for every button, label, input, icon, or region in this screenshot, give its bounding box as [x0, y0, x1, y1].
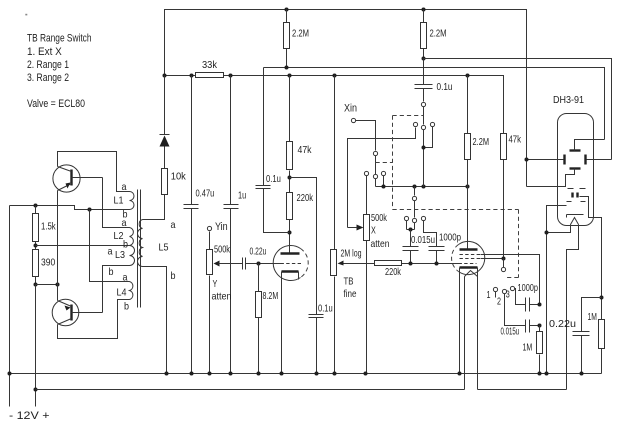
svg-text:1: 1 [487, 290, 491, 301]
svg-text:1u: 1u [238, 191, 246, 202]
capacitor 0.22u (output) [549, 298, 602, 374]
wire contact 2 to 0.015u [505, 294, 526, 326]
wire Q2 collector loop to L4-b [58, 300, 130, 339]
node junction S3 pole [413, 185, 417, 189]
switch S1 pole contacts [421, 102, 425, 186]
inductor L2 winding [114, 218, 134, 251]
node rail75/0.47u [190, 74, 194, 78]
wire Q2 emitter up to junction [57, 285, 59, 301]
svg-text:500k: 500k [214, 245, 231, 256]
capacitor 1000p (right) [518, 283, 540, 312]
wire lead into V3 lower grid [547, 206, 567, 374]
node rail1 junctions [8, 372, 584, 376]
wire L5-b down to rail1 [143, 267, 167, 374]
svg-text:500k: 500k [371, 213, 388, 224]
wire 390 bottom to emitter line [36, 284, 58, 286]
svg-text:Y: Y [213, 279, 218, 290]
node junction top rail / R 2.2M left [285, 8, 289, 12]
wire 10k to L5 top lead [143, 195, 165, 220]
node junction 47k / g3 / S4 pole [502, 257, 506, 261]
node junction top rail / R 2.2M right [422, 8, 426, 12]
svg-text:Valve = ECL80: Valve = ECL80 [27, 98, 85, 110]
svg-text:b: b [109, 267, 114, 278]
svg-text:TB: TB [344, 277, 354, 288]
switch S3 pole contacts [412, 187, 416, 230]
node junction S1 pole line [422, 185, 426, 189]
svg-text:1000p: 1000p [439, 233, 461, 244]
capacitor 0.1u (coupling from y=67 wire) [256, 68, 290, 233]
wire V3 inner step to output lead [580, 197, 602, 374]
svg-text:fine: fine [344, 289, 357, 300]
resistor 220k [287, 193, 314, 254]
inductor L4 winding [117, 273, 133, 313]
svg-text:Xin: Xin [344, 103, 357, 115]
node junction grid / 8.2M [257, 262, 261, 266]
valve V3 grid side contact left [527, 155, 565, 165]
wire Xin to switch S2 [356, 121, 376, 151]
svg-text:2.2M: 2.2M [473, 137, 490, 148]
transistor Q1 [53, 165, 103, 192]
switch S4 contact 1 [487, 287, 498, 301]
wire V2 filament left to rail2 [464, 277, 466, 390]
dashed gang linkage box [376, 116, 519, 278]
svg-text:b: b [124, 302, 129, 313]
svg-text:0.015u: 0.015u [411, 235, 435, 246]
wire switch rail y=186.5 [376, 186, 468, 188]
svg-text:2.2M: 2.2M [292, 29, 309, 40]
wire V2 anode feed [467, 187, 469, 250]
node junction 47k/220k [288, 176, 292, 180]
svg-text:10k: 10k [171, 172, 187, 183]
node junction 1.5k top [34, 204, 38, 208]
node junction rail2 start [34, 388, 38, 392]
resistor 47k (anode load V1a) [287, 76, 313, 193]
valve V3 grid 2 bar with lead [527, 169, 581, 187]
svg-text:2: 2 [497, 297, 501, 308]
svg-text:b: b [123, 240, 128, 251]
svg-text:390: 390 [41, 258, 55, 269]
svg-text:2.2M: 2.2M [430, 29, 447, 40]
wire X atten wiper up to S1 contact [348, 128, 416, 228]
node junction 1.5k/390 centre tap [34, 244, 38, 248]
valve V2 pentode (ECL80 half) [452, 241, 485, 276]
svg-text:b: b [171, 271, 176, 282]
svg-text:0.1u: 0.1u [266, 174, 281, 185]
svg-text:2M log: 2M log [341, 249, 362, 260]
resistor 33k [196, 60, 224, 78]
wire rail 2 right segment [478, 389, 567, 391]
switch S1 contact left [413, 122, 417, 126]
node terminal Xin [344, 103, 357, 123]
capacitor 0.1u (X coupling) [415, 59, 453, 102]
svg-text:a: a [123, 273, 128, 284]
wire L1-b junction down to L4-a [90, 210, 130, 282]
resistor 10k [162, 169, 187, 195]
capacitor 0.22u (Y input) [243, 247, 281, 270]
inductor L5 winding (secondary) [138, 220, 176, 283]
node rail75/1u [229, 74, 233, 78]
svg-text:1M: 1M [523, 343, 533, 354]
potentiometer 2M log TB fine [331, 76, 375, 374]
valve V3 filament [571, 218, 579, 225]
wire Q1 collector to L1-a [58, 152, 130, 192]
potentiometer 500k X atten [348, 176, 390, 374]
diode D1 [160, 135, 170, 169]
resistor 47k (right) [501, 134, 522, 259]
svg-text:DH3-91: DH3-91 [553, 95, 584, 106]
transistor Q2 [52, 299, 102, 326]
node junction anode/0.1u coupling [288, 231, 292, 235]
wire centre tap to L2b/L3a [36, 245, 130, 247]
switch S3 contact left [404, 216, 414, 229]
node junction S3 contacts tie [409, 228, 413, 232]
node junction 390 bottom [34, 283, 38, 287]
wire filament left leg to rail1 line [547, 225, 571, 233]
svg-text:2. Range 1: 2. Range 1 [27, 59, 69, 71]
capacitor 0.015u (right) [501, 320, 540, 338]
svg-text:L3: L3 [115, 250, 125, 261]
resistor 2.2M (right) [421, 10, 447, 59]
svg-text:atten: atten [371, 239, 390, 250]
valve V1a triode (ECL80 half) [273, 246, 308, 374]
resistor 2.2M (left) [284, 10, 310, 68]
svg-text:8.2M: 8.2M [263, 291, 279, 302]
svg-text:1. Ext X: 1. Ext X [27, 46, 62, 58]
wire far-left vertical to -12V minus [9, 206, 11, 407]
resistor 8.2M [256, 264, 279, 374]
resistor 2.2M (mid, V2 grid leak) [465, 76, 490, 187]
switch S1 contact right [424, 122, 435, 147]
wire contact 3 to 1000p [515, 289, 526, 305]
node junction emitters [56, 283, 60, 287]
node junction filament/cathode line [545, 231, 549, 235]
wire 390 junction down to -12V plus [35, 285, 37, 407]
svg-text:47k: 47k [509, 135, 522, 146]
switch S3 contact right [421, 216, 436, 246]
valve V3 DH3-91 envelope [553, 95, 594, 226]
node junction 1000p / grid wire [435, 262, 439, 266]
svg-text:a: a [122, 218, 127, 229]
svg-text:47k: 47k [298, 145, 313, 156]
node rail75/2.2M mid [466, 74, 470, 78]
svg-text:- 12V +: - 12V + [9, 410, 50, 422]
node junction 0.015u / 1M chain [538, 324, 542, 328]
wire V2 filament right to rail2 [477, 268, 479, 390]
wire left feed y=205.3 with step to L1-b [10, 206, 130, 210]
node junction rail/V2 anode [466, 185, 470, 189]
wire V2 screen lead to 1M chain [481, 255, 540, 305]
node junction 2.2M left bottom on y=67.2 wire [285, 66, 289, 70]
svg-text:0.1u: 0.1u [318, 304, 333, 315]
node junction S1 right contact [422, 146, 426, 150]
svg-text:33k: 33k [202, 60, 218, 71]
note text block: TB Range Switch legend [27, 33, 92, 111]
capacitor 1000p (TB) [429, 233, 462, 264]
svg-text:220k: 220k [385, 267, 402, 278]
wire filament right leg to rail2 [567, 225, 579, 390]
wire y=58.7 to DH3-91 right plate [424, 59, 612, 160]
wire rail 2 left segment (-12V return) [36, 389, 465, 391]
node rail75/TB fine pot [333, 74, 337, 78]
valve V3 grid side contact right [586, 155, 612, 165]
wire junction to 0.1u branch [290, 178, 317, 315]
svg-text:0.22u: 0.22u [250, 247, 267, 258]
node rail75/top-rail drop [163, 74, 167, 78]
svg-text:L1: L1 [114, 196, 124, 207]
node junction 0.015u / grid wire [409, 262, 413, 266]
svg-text:X: X [371, 226, 376, 237]
resistor 390 [33, 250, 56, 285]
node junction 1000p / 1M chain [538, 303, 542, 307]
node junction S2 right contact [382, 185, 386, 189]
switch S2 contact right [381, 171, 385, 186]
svg-text:a: a [171, 220, 176, 231]
node rail75/47k chain [288, 74, 292, 78]
transformer T1 core [138, 190, 141, 308]
svg-text:a: a [122, 182, 127, 193]
svg-text:1.5k: 1.5k [41, 222, 56, 233]
svg-text:atten: atten [212, 292, 232, 303]
resistor 1M (right) [588, 312, 605, 349]
switch S4 contact 3 [506, 286, 515, 300]
node terminal Yin [207, 221, 227, 233]
resistor 1M (left) [523, 326, 543, 374]
valve V3 beam plates [573, 193, 578, 198]
node junction L1-b tap [88, 208, 92, 212]
svg-text:0.22u: 0.22u [549, 319, 576, 330]
svg-text:0.015u: 0.015u [501, 327, 520, 338]
capacitor 0.47u [184, 76, 215, 374]
svg-text:1000p: 1000p [518, 283, 539, 294]
switch S2 pole contacts [373, 151, 377, 186]
svg-text:TB Range Switch: TB Range Switch [27, 33, 92, 45]
svg-text:0.1u: 0.1u [437, 82, 453, 93]
wire y=67.2 to DH3-91 anode [264, 68, 605, 140]
resistor 220k (TB) [375, 261, 459, 279]
valve V3 grid 4 dashes [567, 201, 586, 203]
svg-text:L4: L4 [117, 288, 127, 299]
inductor L3 winding [108, 246, 135, 279]
svg-text:L5: L5 [159, 243, 169, 254]
svg-text:3. Range 2: 3. Range 2 [27, 72, 69, 84]
svg-text:0.47u: 0.47u [196, 189, 215, 200]
valve V3 grid 3 dashes [568, 188, 586, 190]
node junction output / 1M right [600, 296, 604, 300]
wire rail75 down to diode [164, 76, 166, 135]
wire top supply rail y=9.4 [165, 10, 527, 187]
switch S2 contact left [364, 171, 368, 175]
node junction grid feed [525, 158, 529, 162]
svg-text:3: 3 [506, 290, 510, 301]
wire Q1 base to L2-a [103, 178, 130, 228]
capacitor 0.015u (TB) [403, 230, 436, 264]
valve V3 anode [570, 140, 605, 151]
wire V2 g3 lead to 47k junction [481, 258, 504, 260]
switch S4 contact 2 [497, 289, 507, 307]
svg-text:Yin: Yin [215, 221, 228, 233]
stray mark top-left [25, 14, 27, 16]
valve V3 cathode top [567, 215, 584, 218]
wire Q1 emitter down to junction [57, 191, 59, 285]
switch S4 pole contact [501, 259, 505, 272]
wire ground rail 1 [10, 373, 602, 375]
wire V2 cathode to rail1 [459, 268, 461, 374]
potentiometer 500k Y atten [207, 232, 243, 374]
svg-text:1M: 1M [588, 312, 597, 323]
svg-text:220k: 220k [297, 193, 314, 204]
resistor 1.5k [33, 206, 57, 250]
wire main rail y=75.3 [165, 76, 504, 134]
wire L3-b to Q2 base [103, 266, 130, 313]
node junction at y=58.7 [422, 57, 426, 61]
inductor L1 winding [114, 182, 135, 221]
capacitor 1u [224, 76, 247, 374]
capacitor 0.1u (to rail1) [309, 304, 333, 374]
svg-text:a: a [108, 247, 113, 258]
